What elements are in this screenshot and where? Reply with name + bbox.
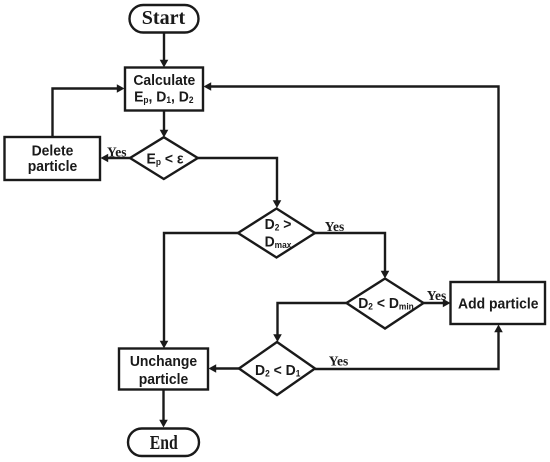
wire No from Ep to D2>Dmax <box>198 158 281 208</box>
svg-text:Unchange: Unchange <box>130 354 197 371</box>
wire Unchange particle to End <box>159 390 168 428</box>
wire Yes from D2<D1 to Add particle bottom <box>315 325 503 370</box>
wire Yes from D2>Dmax to D2<Dmin <box>315 219 389 279</box>
svg-text:End: End <box>150 432 178 454</box>
svg-text:particle: particle <box>28 158 78 175</box>
svg-text:Yes: Yes <box>427 288 447 303</box>
process Calculate <box>125 68 203 111</box>
svg-text:Ep < ε: Ep < ε <box>147 151 184 168</box>
process Delete particle <box>5 137 101 180</box>
wire Yes from D2<Dmin to Add particle <box>424 288 451 307</box>
wire D2<D1 to Unchange particle <box>209 364 240 373</box>
decision D2 > Dmax <box>238 209 315 258</box>
svg-text:D2 < D1: D2 < D1 <box>255 363 301 380</box>
wire No from D2>Dmax to Unchange particle <box>160 233 238 349</box>
svg-text:Yes: Yes <box>325 219 345 234</box>
svg-text:Ep, D1, D2: Ep, D1, D2 <box>134 89 194 106</box>
svg-text:Yes: Yes <box>329 354 349 369</box>
svg-text:Calculate: Calculate <box>133 73 195 90</box>
svg-text:Delete: Delete <box>32 143 74 160</box>
svg-text:Start: Start <box>142 7 186 29</box>
process Add particle <box>451 282 546 324</box>
terminator Start <box>130 5 199 33</box>
svg-text:Add particle: Add particle <box>458 296 539 313</box>
svg-text:particle: particle <box>139 372 189 389</box>
wire Calculate to Ep decision <box>160 111 169 138</box>
terminator End <box>128 429 199 457</box>
wire Add particle back to Calculate <box>204 82 499 282</box>
decision Ep < eps <box>130 137 198 179</box>
wire No from D2<Dmin to D2<D1 <box>273 303 346 342</box>
decision D2 < D1 <box>239 342 315 395</box>
svg-text:Yes: Yes <box>107 144 127 159</box>
process Unchange particle <box>119 349 208 390</box>
decision D2 < Dmin <box>347 279 424 329</box>
wire Yes to Delete particle <box>101 144 131 162</box>
wire Delete particle back to Calculate <box>53 84 125 137</box>
wire Start to Calculate <box>160 33 169 68</box>
